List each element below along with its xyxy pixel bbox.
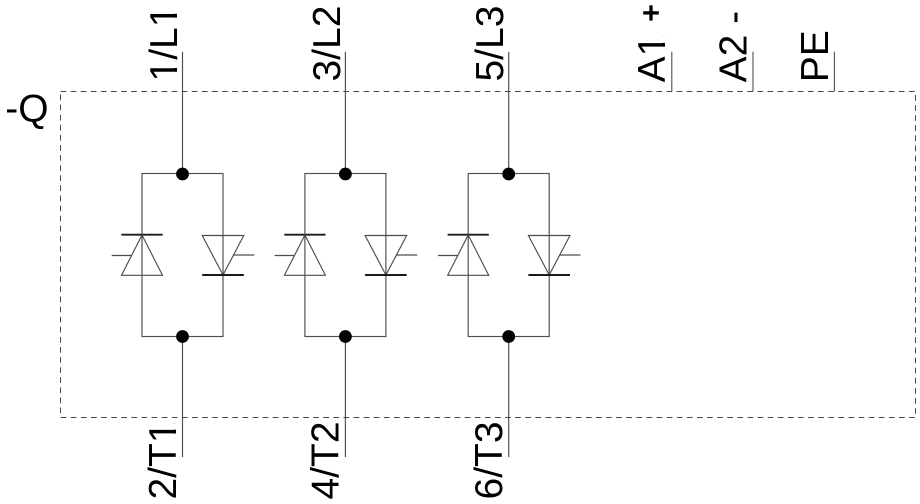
svg-text:6/T3: 6/T3 (468, 421, 511, 499)
svg-text:2/T1: 2/T1 (142, 421, 185, 499)
svg-text:5/L3: 5/L3 (469, 6, 512, 82)
svg-text:-Q: -Q (5, 88, 48, 131)
svg-text:PE: PE (794, 30, 837, 82)
svg-text:A1: A1 (631, 35, 674, 83)
svg-text:1/L1: 1/L1 (143, 6, 186, 82)
svg-text:3/L2: 3/L2 (306, 6, 349, 82)
svg-text:A2 -: A2 - (713, 11, 756, 83)
svg-text:4/T2: 4/T2 (305, 421, 348, 499)
